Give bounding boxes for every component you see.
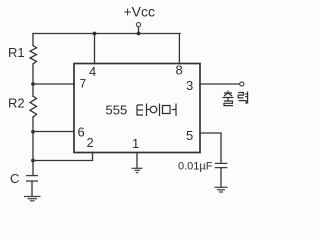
- wire R2 to capacitor C: [32, 117, 34, 175]
- svg-text:1: 1: [132, 136, 139, 151]
- wire pin1 to ground: [136, 153, 138, 168]
- wire pin2: [33, 153, 93, 161]
- label 타이머 (hand-drawn hangul): [137, 104, 176, 117]
- node junction R1-R2 pin7: [31, 82, 35, 86]
- 력: [238, 93, 243, 98]
- op-amp U1 555 timer box: [74, 64, 200, 153]
- wire pin4 drop: [94, 34, 96, 64]
- node junction R2-pin6: [31, 130, 35, 134]
- 머: [163, 106, 171, 114]
- node junction Vcc-rail: [137, 32, 141, 36]
- ground below C: [24, 197, 41, 201]
- ground below pin1: [132, 168, 143, 172]
- resistor R2: [30, 96, 37, 117]
- svg-text:0.01µF: 0.01µF: [178, 161, 213, 173]
- wire Vcc stub: [138, 27, 140, 34]
- 출: [224, 91, 232, 97]
- svg-text:+Vcc: +Vcc: [124, 4, 156, 20]
- wire pin6: [33, 131, 74, 133]
- wire top rail: [33, 33, 180, 35]
- wire pin8 drop: [178, 34, 180, 64]
- label 출력 (hand-drawn hangul): [223, 91, 248, 106]
- resistor R1: [30, 46, 37, 65]
- node output terminal: [240, 82, 244, 86]
- svg-text:6: 6: [78, 125, 85, 140]
- svg-text:8: 8: [176, 63, 183, 78]
- wire pin7: [33, 83, 74, 85]
- svg-text:C: C: [10, 171, 19, 186]
- wire pin5: [200, 133, 221, 163]
- wire left rail upper (R1 lead): [32, 34, 34, 46]
- svg-text:5: 5: [186, 128, 193, 143]
- node junction pin2-C: [31, 159, 35, 163]
- 타: [137, 105, 143, 115]
- wire C to ground: [31, 181, 33, 196]
- svg-text:R2: R2: [8, 96, 25, 111]
- wire R1 to junction: [32, 64, 34, 96]
- node junction pin4-rail: [93, 32, 97, 36]
- wire pin3 output: [200, 83, 240, 85]
- wire 0.01uF to ground: [220, 168, 222, 187]
- 이: [150, 106, 157, 113]
- svg-text:7: 7: [80, 77, 87, 91]
- node Vcc terminal: [136, 23, 140, 27]
- svg-text:4: 4: [89, 64, 96, 79]
- svg-text:555: 555: [106, 103, 128, 118]
- capacitor C2 0.01uF: [215, 163, 228, 167]
- svg-text:3: 3: [186, 78, 193, 93]
- capacitor C: [26, 176, 38, 181]
- svg-text:2: 2: [87, 135, 94, 150]
- svg-text:R1: R1: [8, 45, 25, 60]
- ground below 0.01uF: [215, 187, 228, 192]
